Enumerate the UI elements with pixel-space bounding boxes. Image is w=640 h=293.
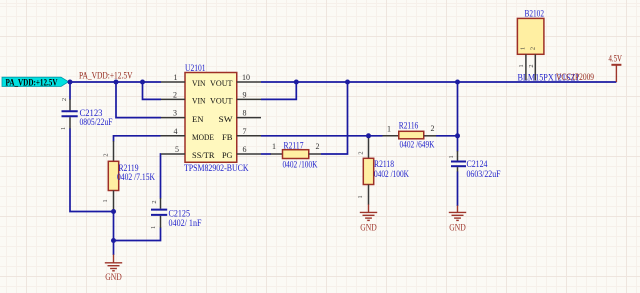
svg-text:0402 /649K: 0402 /649K bbox=[400, 140, 435, 150]
power 4.5V bbox=[609, 54, 623, 82]
svg-text:2: 2 bbox=[528, 64, 535, 67]
svg-text:8: 8 bbox=[243, 109, 247, 118]
svg-text:5: 5 bbox=[175, 145, 179, 154]
wire SS/TR bbox=[160, 154, 163, 199]
svg-text:2: 2 bbox=[103, 153, 110, 156]
junction node EN branch bbox=[114, 80, 119, 85]
net label PA_VDD:+12.5V bbox=[2, 77, 69, 88]
junction node R2116/C2124 bbox=[455, 133, 460, 138]
svg-text:R2116: R2116 bbox=[399, 121, 419, 131]
svg-text:0402 /100K: 0402 /100K bbox=[283, 160, 318, 170]
wire R2116 to C2124 bbox=[436, 135, 458, 137]
resistor R2118 bbox=[357, 136, 374, 205]
svg-text:0402 /100K: 0402 /100K bbox=[374, 169, 409, 179]
junction node on rail at label bbox=[68, 80, 73, 85]
resistor R2119 bbox=[102, 136, 161, 212]
pin 1 VIN bbox=[161, 81, 185, 83]
wire bottom vertical bbox=[113, 212, 115, 241]
svg-text:1: 1 bbox=[102, 199, 109, 202]
ferrite bead B2102 bbox=[517, 18, 544, 80]
svg-text:VOUT: VOUT bbox=[210, 78, 233, 88]
pin 7 FB bbox=[237, 135, 261, 137]
svg-text:4.5V: 4.5V bbox=[609, 54, 623, 64]
wire left vertical to C2123 bbox=[69, 82, 71, 100]
wire gnd drop bbox=[113, 241, 115, 256]
wire pin9 link bbox=[261, 82, 296, 99]
pin 8 SW bbox=[237, 117, 261, 119]
svg-text:VOUT: VOUT bbox=[210, 96, 233, 106]
pin 4 MODE bbox=[161, 135, 186, 137]
capacitor C2123 bbox=[60, 98, 78, 130]
svg-text:C2124: C2124 bbox=[467, 159, 488, 169]
svg-text:2: 2 bbox=[173, 90, 177, 99]
resistor R2116 bbox=[383, 124, 437, 139]
svg-text:R2118: R2118 bbox=[374, 159, 394, 169]
junction node VIN2 branch bbox=[140, 80, 145, 85]
svg-text:6: 6 bbox=[243, 145, 247, 154]
wire C2123 to gnd rail bbox=[70, 129, 114, 212]
svg-text:2: 2 bbox=[530, 47, 537, 50]
pin 10 VOUT bbox=[237, 81, 261, 83]
svg-text:0402/ 1nF: 0402/ 1nF bbox=[169, 218, 202, 228]
junction node VOUT/pin9 bbox=[294, 80, 299, 85]
pin 2 VIN bbox=[161, 98, 185, 100]
svg-text:EN: EN bbox=[192, 114, 204, 124]
svg-text:VIN: VIN bbox=[192, 96, 206, 106]
svg-text:3: 3 bbox=[173, 109, 177, 118]
junction node VOUT/R2117 bbox=[345, 80, 350, 85]
svg-text:1: 1 bbox=[60, 127, 67, 130]
svg-text:TPSM82902-BUCK: TPSM82902-BUCK bbox=[184, 163, 249, 173]
wire bottom horizontal to C2125 bbox=[114, 228, 161, 241]
wire PG to R2117 bbox=[261, 153, 271, 155]
svg-text:GND: GND bbox=[360, 224, 377, 234]
wire PA_VDD rail bbox=[69, 81, 162, 83]
junction node FB/R2118 bbox=[366, 133, 371, 138]
svg-text:R2117: R2117 bbox=[284, 140, 304, 150]
svg-text:PA_VDD:+12.5V: PA_VDD:+12.5V bbox=[79, 70, 133, 80]
junction node VOUT/C2124 bbox=[455, 80, 460, 85]
wire VOUT rail bbox=[261, 81, 616, 83]
svg-text:2: 2 bbox=[358, 151, 365, 154]
svg-text:7: 7 bbox=[243, 127, 247, 136]
svg-text:SS/TR: SS/TR bbox=[192, 150, 215, 160]
wire FB net bbox=[261, 135, 383, 137]
pin 5 SS/TR bbox=[161, 153, 185, 155]
junction node gnd net left upper bbox=[111, 209, 116, 214]
svg-text:2: 2 bbox=[316, 142, 320, 151]
junction node gnd net left lower bbox=[111, 238, 116, 243]
svg-text:VIN: VIN bbox=[192, 78, 206, 88]
svg-text:PG: PG bbox=[222, 150, 233, 160]
resistor R2117 bbox=[271, 142, 322, 159]
capacitor C2125 bbox=[150, 198, 167, 229]
svg-text:B2102: B2102 bbox=[525, 8, 545, 18]
svg-text:GND: GND bbox=[105, 273, 122, 283]
IC U2101 TPSM82902 buck regulator bbox=[185, 73, 237, 163]
svg-text:0603/22uF: 0603/22uF bbox=[467, 169, 501, 179]
ground GND3 bbox=[449, 206, 466, 221]
svg-text:1: 1 bbox=[518, 64, 525, 67]
svg-text:1: 1 bbox=[387, 124, 391, 133]
svg-text:4: 4 bbox=[174, 127, 178, 136]
svg-text:1: 1 bbox=[357, 195, 364, 198]
svg-text:MODE: MODE bbox=[192, 132, 214, 142]
svg-text:1: 1 bbox=[448, 155, 455, 158]
svg-text:2: 2 bbox=[431, 124, 435, 133]
svg-text:1: 1 bbox=[272, 142, 276, 151]
svg-text:10: 10 bbox=[242, 73, 250, 82]
svg-text:U2101: U2101 bbox=[185, 63, 206, 73]
wire to pin2 VIN bbox=[143, 82, 162, 99]
svg-text:1: 1 bbox=[150, 226, 157, 229]
svg-text:GND: GND bbox=[449, 224, 466, 234]
wire C2124 to gnd bbox=[457, 172, 459, 207]
svg-text:0805/22uF: 0805/22uF bbox=[80, 117, 113, 127]
svg-text:C2125: C2125 bbox=[169, 209, 191, 219]
svg-text:2: 2 bbox=[61, 98, 68, 101]
pin 3 EN bbox=[161, 117, 185, 119]
svg-text:PA_VDD:+12.5V: PA_VDD:+12.5V bbox=[6, 78, 58, 88]
wire VOUT rail to C2124 bbox=[457, 82, 459, 152]
svg-text:VCC1P2009: VCC1P2009 bbox=[556, 72, 594, 82]
svg-text:FB: FB bbox=[222, 132, 233, 142]
wire R2117 to VOUT rail bbox=[321, 82, 348, 154]
ground GND1 bbox=[105, 255, 122, 271]
svg-text:1: 1 bbox=[174, 73, 178, 82]
svg-text:1: 1 bbox=[520, 47, 527, 50]
pin 6 PG bbox=[237, 153, 261, 155]
svg-text:0402 /7.15K: 0402 /7.15K bbox=[117, 172, 155, 182]
svg-text:2: 2 bbox=[151, 200, 158, 203]
svg-text:SW: SW bbox=[219, 114, 234, 124]
ground GND2 bbox=[360, 204, 377, 220]
wire to pin3 EN bbox=[116, 82, 161, 118]
pin 9 VOUT bbox=[237, 98, 261, 100]
capacitor C2124 bbox=[448, 151, 466, 172]
svg-text:9: 9 bbox=[243, 90, 247, 99]
